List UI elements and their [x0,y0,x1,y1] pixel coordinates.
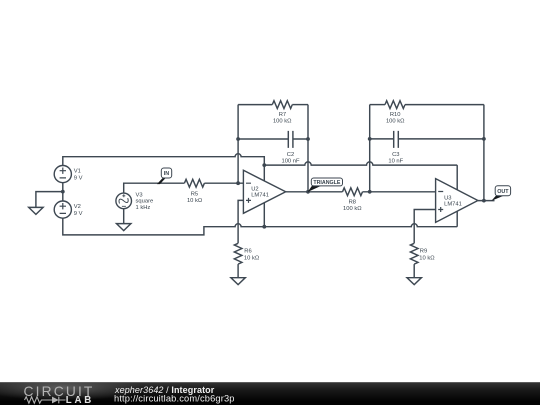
svg-text:100 kΩ: 100 kΩ [386,119,405,125]
voltage source V3 [116,193,132,209]
wire U2 V+ power pin vertical [263,165,265,227]
wire U3 non-inverting input to R9 [414,210,435,244]
wire U2 feedback right vertical to output [307,105,309,192]
resistor R5 [184,179,204,187]
wire V3 to IN node and R5 [124,183,185,193]
op-amp U2 [243,170,285,213]
ground symbol below R9 [407,278,421,285]
svg-text:100 kΩ: 100 kΩ [343,206,362,212]
wire feedback top right segment [292,104,308,106]
voltage source V2 [54,201,71,218]
svg-text:LAB: LAB [66,395,94,405]
capacitor C2 [238,131,308,148]
wire feedback top left segment [238,104,272,106]
svg-text:C3: C3 [392,152,399,158]
svg-text:V2: V2 [74,204,81,210]
voltage source V1 [54,166,71,183]
svg-text:R9: R9 [420,249,427,255]
svg-text:OUT: OUT [497,189,509,195]
svg-text:C2: C2 [287,152,294,158]
svg-text:R10: R10 [390,112,401,118]
wire second feedback top left segment [370,104,385,106]
wire +9V rail from V1 top with hop over feedback vertical [63,154,264,166]
node flag OUT [491,186,510,201]
ground symbol below R6 [231,278,245,285]
svg-text:V1: V1 [74,169,81,175]
wire R9 to ground [413,264,415,278]
node junction dots [61,190,65,194]
svg-text:10 nF: 10 nF [388,159,403,165]
capacitor C3 [370,131,484,148]
wire V1/V2 midpoint to ground [36,192,63,208]
wire R5 to U2 inverting input [204,182,243,184]
wire U3 feedback right vertical to output [483,105,485,201]
node flag IN [157,168,172,184]
node flag TRIANGLE [308,178,343,192]
ground symbol at V1/V2 midpoint [29,207,43,214]
V2 plus/minus marks [60,203,66,213]
svg-text:9 V: 9 V [74,175,83,181]
wire U2 output to R8 (TRIANGLE node) [286,191,343,193]
svg-text:100 nF: 100 nF [281,159,300,165]
svg-text:1 kHz: 1 kHz [136,205,151,211]
wire U3 feedback left vertical (R8 node up to R10/C3) [369,105,371,192]
svg-text:100 kΩ: 100 kΩ [273,119,292,125]
svg-text:V3: V3 [136,192,143,198]
wire R8 to U3 inverting input [363,191,436,193]
U2 input polarity marks [246,183,251,203]
wire V1-V2 series connection [62,183,64,201]
resistor R7 [272,101,292,109]
svg-text:IN: IN [164,171,169,177]
op-amp U3 [436,179,478,223]
wire U3 V+ / V- power pin vertical [456,165,458,227]
footer bar [0,382,540,405]
wire U2 non-inverting input to R6 [238,200,243,243]
wire second feedback top right segment [405,104,484,106]
svg-text:R8: R8 [349,199,356,205]
resistor R10 [385,101,405,109]
svg-text:9 V: 9 V [74,211,83,217]
resistor R6 [234,243,242,264]
svg-text:http://circuitlab.com/cb6gr3p: http://circuitlab.com/cb6gr3p [114,394,235,404]
CircuitLab logo mini schematic (resistor + diode) [25,397,66,404]
resistor R8 [343,188,363,196]
svg-text:R6: R6 [244,249,251,255]
wire negative bus from V2 bottom to op-amp V- pins with hops [63,218,457,235]
svg-text:square: square [136,199,154,205]
svg-text:LM741: LM741 [251,193,269,199]
wire U3 output to OUT node [478,200,495,202]
svg-text:U3: U3 [444,195,451,201]
V1 plus/minus marks [60,168,66,178]
ground symbol below V3 [117,224,131,231]
svg-text:R7: R7 [279,112,286,118]
svg-text:R5: R5 [191,191,198,197]
resistor R9 [410,243,418,264]
wire R6 to ground [237,264,239,278]
wire U2 feedback left vertical (R7/C2 to inverting input) [237,105,239,184]
svg-text:U2: U2 [251,186,258,192]
svg-text:10 kΩ: 10 kΩ [187,198,203,204]
svg-text:10 kΩ: 10 kΩ [244,255,260,261]
wire V3 to ground [123,209,125,224]
svg-text:10 kΩ: 10 kΩ [419,255,435,261]
wire V+ distribution to op-amp power pins with hops [264,162,457,165]
U3 input polarity marks [438,192,443,213]
svg-text:LM741: LM741 [444,202,462,208]
svg-text:TRIANGLE: TRIANGLE [313,180,341,186]
V3 waveform glyph [118,195,130,206]
